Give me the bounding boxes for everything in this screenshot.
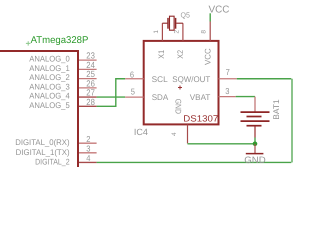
wire DIGITAL_2 to SQW/OUT (via right edge) [97, 161, 292, 163]
pin DIGITAL_1(TX) (3) [16, 143, 97, 156]
wire DS1307 GND pin to junction [188, 143, 256, 145]
crystal Q5 [162, 10, 190, 30]
wire VCC stub [209, 13, 211, 21]
pin X2 (2) [173, 23, 185, 59]
svg-text:4: 4 [86, 153, 90, 163]
svg-text:ANALOG_2: ANALOG_2 [29, 73, 70, 82]
svg-text:DIGITAL_0(RX): DIGITAL_0(RX) [15, 138, 70, 147]
ground GND [244, 144, 266, 165]
wire SQW/OUT horizontal [237, 78, 292, 80]
pin ANALOG_0 (23) [29, 51, 96, 64]
svg-text:3: 3 [86, 143, 90, 153]
origin cross ATmega [26, 41, 31, 45]
svg-text:VBAT: VBAT [190, 93, 211, 102]
svg-text:8: 8 [201, 30, 208, 34]
svg-text:SCL: SCL [152, 75, 168, 84]
wire right edge vertical [291, 79, 293, 163]
IC ATmega328P (partial box, cropped left) [0, 51, 78, 167]
body [170, 16, 175, 30]
svg-text:ANALOG_3: ANALOG_3 [29, 82, 70, 91]
plate long 2 [241, 120, 270, 122]
pin DIGITAL_0(RX) (2) [15, 134, 96, 147]
pin bottom [254, 127, 256, 138]
svg-text:ANALOG_0: ANALOG_0 [29, 55, 70, 64]
svg-text:GND: GND [173, 99, 182, 114]
plate left [167, 18, 169, 29]
svg-text:2: 2 [86, 134, 90, 144]
wire battery to gnd junction [254, 138, 256, 144]
wire ANALOG_4 to SDA [97, 96, 126, 98]
svg-text:3: 3 [225, 86, 229, 96]
pin ANALOG_5 (28) [29, 97, 96, 110]
pin X1 (1) [153, 23, 166, 59]
svg-text:ANALOG_5: ANALOG_5 [29, 101, 70, 110]
svg-text:DIGITAL_2: DIGITAL_2 [35, 157, 70, 166]
pin DIGITAL_2 (4) [35, 153, 97, 166]
pin ANALOG_3 (26) [29, 79, 96, 92]
svg-text:BAT1: BAT1 [271, 99, 281, 120]
pin SCL (6) [125, 70, 168, 84]
svg-text:Q5: Q5 [181, 10, 190, 19]
svg-text:7: 7 [226, 67, 230, 77]
pin ANALOG_2 (25) [29, 69, 96, 82]
svg-text:VCC: VCC [209, 5, 230, 16]
plate right [175, 18, 177, 29]
svg-text:SQW/OUT: SQW/OUT [172, 75, 210, 84]
junction dot [253, 142, 258, 147]
svg-text:4: 4 [171, 132, 178, 136]
svg-text:6: 6 [130, 70, 134, 80]
lead right [176, 22, 183, 24]
pin GND (4, bottom) [171, 99, 187, 144]
svg-text:1: 1 [153, 30, 160, 34]
wire ANALOG_5 to SCL [97, 79, 126, 107]
svg-text:ATmega328P: ATmega328P [31, 35, 89, 46]
svg-text:DS1307: DS1307 [183, 114, 218, 124]
wire VBAT to battery [236, 96, 255, 98]
lead left [162, 22, 167, 24]
supply VCC [209, 5, 230, 22]
pin VCC (8) [201, 22, 213, 66]
svg-text:ANALOG_1: ANALOG_1 [29, 64, 70, 73]
pin VBAT (3) [190, 86, 236, 102]
svg-text:X2: X2 [176, 50, 185, 59]
battery BAT1 [241, 97, 282, 138]
pin ANALOG_1 (24) [29, 60, 96, 73]
svg-text:DIGITAL_1(TX): DIGITAL_1(TX) [16, 148, 70, 157]
IC4 DS1307 box [144, 41, 219, 125]
svg-text:ANALOG_4: ANALOG_4 [29, 92, 70, 101]
plate long 1 [241, 111, 270, 113]
plate short 2 [247, 125, 262, 127]
wire to gnd [254, 144, 256, 154]
svg-text:IC4: IC4 [134, 127, 148, 137]
pin ANALOG_4 (27) [29, 88, 96, 101]
svg-text:28: 28 [86, 97, 95, 107]
gnd bar [246, 153, 264, 155]
plus mark inside DS1307 [178, 86, 182, 90]
svg-text:X1: X1 [157, 50, 166, 59]
svg-text:SDA: SDA [152, 93, 169, 102]
pin top [254, 97, 256, 112]
svg-text:VCC: VCC [203, 48, 212, 65]
pin SQW/OUT (7) [172, 67, 236, 84]
plate short 1 [247, 116, 262, 118]
svg-text:GND: GND [244, 155, 266, 165]
pin SDA (5) [125, 87, 169, 102]
svg-text:5: 5 [131, 87, 135, 97]
